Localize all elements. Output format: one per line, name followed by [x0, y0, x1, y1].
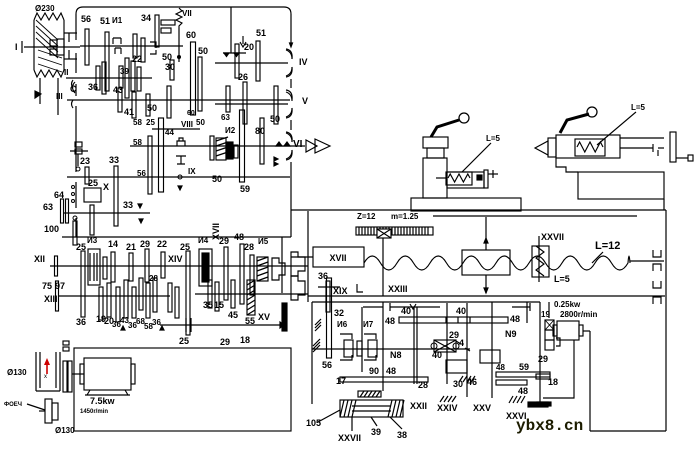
- horizontal gear bar 18: [496, 380, 527, 385]
- gear 63 on III: [226, 86, 230, 112]
- svg-text:35: 35: [203, 300, 213, 310]
- bed hooks right: [653, 250, 661, 257]
- shaft XI line: [64, 212, 150, 214]
- gear 48 tall: [240, 244, 244, 304]
- shaft stub x527: [526, 302, 528, 323]
- motor 7.5 base: [85, 390, 130, 395]
- gear 19: [99, 287, 103, 320]
- gear x162: [161, 252, 165, 278]
- svg-text:XVII: XVII: [329, 253, 346, 263]
- tailstock handle: [560, 114, 589, 133]
- rest symbol above spindle: [177, 138, 185, 146]
- end tick: [537, 402, 551, 406]
- svg-text:41: 41: [124, 107, 134, 117]
- svg-text:39: 39: [371, 427, 381, 437]
- svg-text:Ø230: Ø230: [35, 4, 55, 13]
- svg-text:XXVII: XXVII: [338, 433, 361, 443]
- svg-text:III: III: [56, 92, 63, 101]
- belt to motor left side: [39, 78, 41, 104]
- split nut XXVII: [532, 246, 549, 277]
- svg-text:48: 48: [234, 232, 244, 242]
- gear pair II a: [119, 66, 123, 88]
- hatch mark left lower: [313, 339, 320, 346]
- gear on IV: [235, 44, 239, 78]
- saddle cap: [423, 137, 448, 148]
- gear x105: [103, 257, 107, 279]
- gear 36 on II: [96, 66, 100, 90]
- motor 0.25 flanges: [553, 325, 557, 336]
- bevel riser: [548, 302, 550, 318]
- svg-text:48: 48: [386, 366, 396, 376]
- gear 39: [102, 62, 106, 94]
- red arrow: [46, 362, 48, 374]
- svg-text:L=5: L=5: [554, 274, 570, 284]
- jaw clutch a: [272, 258, 285, 280]
- svg-text:L=5: L=5: [486, 134, 501, 143]
- svg-text:50: 50: [198, 46, 208, 56]
- gearbox XVII box: [313, 247, 364, 267]
- svg-text:46: 46: [467, 377, 477, 387]
- gear 51: [105, 32, 109, 91]
- headstock casing border bottom: [62, 236, 291, 238]
- gear on II right: [170, 60, 174, 80]
- tailstock barrel: [556, 135, 620, 158]
- svg-text:51: 51: [256, 28, 266, 38]
- bed right wall: [665, 210, 667, 431]
- svg-text:X: X: [103, 182, 109, 192]
- motor drop line: [543, 340, 574, 398]
- gear 63: [66, 199, 69, 223]
- gear 26: [243, 82, 247, 124]
- shaft XX vertical: [382, 302, 384, 391]
- saddle dot: [477, 175, 482, 180]
- clutch box 25: [84, 188, 101, 202]
- svg-text:0.25kw: 0.25kw: [554, 300, 581, 309]
- gear pair on I: [133, 34, 137, 58]
- headstock casing border left: [75, 14, 77, 40]
- headstock casing border top: [76, 7, 291, 14]
- spindle bearing marks: [276, 142, 282, 146]
- shaft XII line: [50, 265, 308, 267]
- tailstock quill: [620, 137, 664, 139]
- shaft IX line: [67, 176, 290, 178]
- shaft XV line: [195, 293, 308, 295]
- apron top line: [312, 301, 540, 303]
- gear 36 c: [153, 278, 157, 312]
- gear 29 XII: [145, 249, 149, 282]
- gear 14: [111, 252, 115, 282]
- gear 36 b: [132, 287, 136, 318]
- gear 41: [132, 92, 136, 118]
- clutch M3 box: [88, 249, 100, 285]
- shaft II line: [66, 77, 152, 79]
- svg-text:22: 22: [132, 54, 142, 64]
- shaft XVI line: [160, 324, 282, 326]
- svg-text:80: 80: [255, 126, 265, 136]
- svg-text:40: 40: [432, 350, 442, 360]
- svg-text:N8: N8: [390, 350, 402, 360]
- svg-text:ФОЕЧ: ФОЕЧ: [4, 402, 22, 408]
- leadscrew wave: [364, 256, 630, 270]
- gear 15: [215, 282, 219, 311]
- svg-text:XV: XV: [258, 312, 270, 322]
- svg-text:Ø130: Ø130: [7, 368, 27, 377]
- tailstock spring box: [575, 139, 605, 156]
- shaft mid vertical: [466, 303, 468, 397]
- svg-text:60: 60: [186, 30, 196, 40]
- svg-text:48: 48: [496, 363, 505, 372]
- riser to cluster: [281, 237, 283, 293]
- saddle arm: [447, 172, 484, 188]
- shaft VI spindle line: [130, 145, 305, 147]
- belt to motor right side: [57, 78, 59, 115]
- svg-text:26: 26: [238, 72, 248, 82]
- gear 28: [250, 255, 254, 295]
- bearing hooks shaft IV: [286, 49, 292, 59]
- fork line: [230, 7, 232, 53]
- brake shaft stub: [70, 150, 88, 152]
- svg-text:XVII: XVII: [211, 223, 221, 240]
- svg-text:IX: IX: [188, 167, 196, 176]
- svg-text:VIII: VIII: [181, 120, 193, 129]
- gear 56 spindle: [159, 118, 164, 192]
- bed line lower: [433, 215, 637, 217]
- svg-text:38: 38: [397, 430, 407, 440]
- pivot marks: [121, 326, 125, 330]
- svg-text:59: 59: [519, 362, 529, 372]
- svg-text:XII: XII: [34, 254, 45, 264]
- gear 33 tall: [114, 166, 118, 226]
- svg-text:IV: IV: [299, 57, 308, 67]
- shaft XVIII line: [312, 348, 470, 350]
- svg-text:Z=12: Z=12: [357, 212, 376, 221]
- svg-text:58: 58: [133, 138, 142, 147]
- driven pulley inner lines: [39, 352, 41, 388]
- svg-text:97: 97: [55, 281, 65, 291]
- svg-text:59: 59: [240, 184, 250, 194]
- svg-text:32: 32: [334, 308, 344, 318]
- rack shaft vertical: [382, 238, 384, 296]
- svg-text:22: 22: [157, 239, 167, 249]
- saddle bed block: [411, 198, 521, 211]
- svg-text:58: 58: [133, 118, 142, 127]
- gear 58 spindle: [148, 136, 152, 194]
- bottom right box left: [589, 331, 591, 431]
- bottom right box bottom: [590, 430, 666, 432]
- svg-text:И5: И5: [258, 237, 269, 246]
- gear 50 spindle: [210, 136, 214, 160]
- brace IV: [286, 50, 292, 76]
- svg-text:34: 34: [141, 13, 151, 23]
- bracket C: [73, 82, 76, 93]
- svg-text:x: x: [44, 374, 47, 380]
- brace VI: [286, 133, 292, 159]
- clutch hook: [150, 42, 156, 54]
- saddle handle: [431, 120, 459, 137]
- svg-text:7.5kw: 7.5kw: [90, 396, 116, 406]
- shaft XXVI vertical: [491, 302, 493, 398]
- arrow above nut: [485, 217, 487, 250]
- hatch mark left: [315, 319, 321, 325]
- svg-text:И3: И3: [87, 236, 98, 245]
- svg-text:I: I: [15, 42, 18, 52]
- svg-text:m=1.25: m=1.25: [391, 212, 419, 221]
- gear x56 XIII: [56, 281, 59, 311]
- bearing hooks shaft V: [286, 90, 292, 100]
- svg-text:25: 25: [146, 118, 155, 127]
- svg-text:56: 56: [81, 14, 91, 24]
- clutch sleeve 34: [161, 20, 175, 25]
- bracket end: [357, 284, 363, 292]
- svg-text:45: 45: [228, 310, 238, 320]
- svg-text:29: 29: [220, 337, 230, 347]
- tailstock base: [578, 172, 664, 199]
- bevel stack: [545, 320, 554, 330]
- mark a: [139, 219, 143, 223]
- apron left border: [311, 302, 313, 404]
- pulley small marks: [63, 341, 69, 345]
- gear 64: [61, 199, 64, 223]
- svg-text:90: 90: [369, 366, 379, 376]
- svg-text:100: 100: [44, 224, 59, 234]
- gear 80: [260, 118, 264, 164]
- hub on shaft I: [50, 40, 57, 46]
- hooks motor: [556, 338, 560, 346]
- svg-text:50: 50: [212, 174, 222, 184]
- svg-text:36: 36: [88, 82, 98, 92]
- svg-text:50: 50: [270, 114, 280, 124]
- dot VII: [177, 55, 181, 59]
- gear 68: [139, 278, 143, 310]
- svg-text:25: 25: [88, 178, 98, 188]
- svg-text:XXII: XXII: [410, 401, 427, 411]
- svg-text:23: 23: [80, 156, 90, 166]
- gear 58 c: [146, 283, 150, 318]
- svg-text:43: 43: [113, 85, 123, 95]
- svg-text:1450r/min: 1450r/min: [80, 409, 108, 415]
- bearing hooks shaft VI: [286, 132, 292, 142]
- gear 34: [155, 15, 159, 47]
- gear ticks XVI: [185, 318, 187, 332]
- svg-text:17: 17: [336, 376, 346, 386]
- motor shaft link: [72, 373, 84, 375]
- svg-text:N9: N9: [505, 329, 517, 339]
- svg-text:XIX: XIX: [333, 286, 348, 296]
- gear 25 left tall: [81, 251, 85, 317]
- gear 18 plate: [536, 374, 550, 379]
- gear x74: [73, 221, 77, 245]
- svg-text:XIV: XIV: [168, 254, 183, 264]
- motor 7.5 caps: [80, 364, 84, 384]
- gear 43: [118, 88, 122, 112]
- hatch under 48: [509, 396, 513, 403]
- gear 21: [129, 253, 133, 281]
- gear III x167: [167, 86, 171, 118]
- leadscrew end line: [630, 260, 664, 262]
- pulley 130 right wall: [59, 352, 61, 391]
- svg-text:29: 29: [538, 354, 548, 364]
- svg-text:36: 36: [152, 318, 161, 327]
- saddle spring box: [446, 172, 472, 185]
- svg-text:63: 63: [43, 202, 53, 212]
- svg-text:60: 60: [187, 110, 195, 117]
- svg-text:33: 33: [123, 200, 133, 210]
- svg-text:ybx8.cn: ybx8.cn: [516, 417, 583, 435]
- svg-text:36: 36: [76, 317, 86, 327]
- svg-text:И4: И4: [198, 236, 209, 245]
- pulley P1 (Ø230): [34, 20, 64, 70]
- saddle leader: [462, 143, 491, 172]
- svg-text:XXVII: XXVII: [541, 232, 564, 242]
- svg-text:XXIII: XXIII: [388, 284, 408, 294]
- hatched gear XV: [247, 280, 255, 315]
- jaw clutch c: [291, 276, 305, 300]
- gear 56: [85, 29, 89, 65]
- horizontal gear bar 17: [340, 377, 428, 382]
- feed rod line XXIII: [308, 295, 665, 297]
- shaft I line: [80, 45, 183, 47]
- bearing marks below VI: [274, 157, 278, 161]
- tailstock body step: [556, 158, 578, 172]
- svg-text:V: V: [302, 96, 308, 106]
- svg-text:33: 33: [109, 155, 119, 165]
- svg-text:18: 18: [240, 335, 250, 345]
- svg-text:28: 28: [418, 380, 428, 390]
- tailstock base to bed: [663, 199, 665, 210]
- shaft V line: [215, 103, 288, 105]
- svg-text:15: 15: [214, 300, 224, 310]
- pulley bottom: [36, 390, 60, 392]
- svg-text:14: 14: [108, 239, 118, 249]
- gear 29 right: [224, 247, 228, 300]
- svg-text:VII: VII: [182, 9, 192, 18]
- tailstock handwheel: [670, 132, 676, 162]
- arrow XVI: [280, 322, 284, 328]
- hatch under a: [459, 376, 463, 382]
- svg-text:VI: VI: [293, 139, 303, 150]
- rest symbol below spindle: [176, 156, 186, 164]
- svg-text:И6: И6: [337, 320, 348, 329]
- bearing hook shaft III left: [72, 100, 74, 108]
- svg-text:И2: И2: [225, 126, 236, 135]
- motor 0.25 body: [557, 321, 579, 340]
- svg-text:105: 105: [306, 418, 321, 428]
- shaft IV line: [215, 62, 288, 64]
- brace V: [286, 92, 292, 117]
- svg-text:2800r/min: 2800r/min: [560, 310, 597, 319]
- gear small x56: [55, 256, 58, 276]
- clutch M4 box: [199, 249, 212, 286]
- saddle column: [423, 158, 447, 198]
- bed line upper: [291, 209, 666, 211]
- bearing hook shaft II left: [72, 80, 74, 88]
- svg-text:28: 28: [244, 242, 254, 252]
- arrow below nut: [485, 275, 487, 293]
- pulley 130 left wall: [35, 352, 37, 391]
- svg-text:25: 25: [179, 336, 189, 346]
- shaft I: [24, 46, 80, 48]
- svg-text:29: 29: [140, 239, 150, 249]
- shaft XXIV vertical: [413, 307, 415, 384]
- svg-text:64: 64: [54, 190, 64, 200]
- svg-text:40: 40: [456, 306, 466, 316]
- wire belt-edge: [64, 32, 77, 34]
- svg-text:Ø130: Ø130: [55, 426, 75, 435]
- gear 22: [131, 61, 135, 91]
- apron slide hatched: [358, 391, 381, 397]
- svg-text:48: 48: [385, 316, 395, 326]
- gear 35: [208, 280, 212, 308]
- svg-text:56: 56: [322, 360, 332, 370]
- svg-text:И1: И1: [112, 16, 123, 25]
- svg-text:XXV: XXV: [473, 403, 491, 413]
- half-nut box: [462, 250, 510, 275]
- svg-text:50: 50: [147, 103, 157, 113]
- dots X: [72, 186, 75, 189]
- driven pulley stack: [63, 361, 67, 392]
- jaw clutch b: [291, 252, 305, 276]
- gear 50 III: [146, 94, 150, 116]
- gear 20: [107, 283, 111, 317]
- shaft XXVII vertical right: [539, 302, 541, 402]
- svg-text:30: 30: [453, 379, 463, 389]
- svg-text:И7: И7: [363, 320, 374, 329]
- gear 50 V: [274, 86, 278, 124]
- gear 45: [231, 280, 235, 308]
- gear small mid: [357, 341, 362, 356]
- svg-text:25: 25: [180, 242, 190, 252]
- svg-text:XXIV: XXIV: [437, 403, 458, 413]
- bearing wall: [68, 33, 70, 42]
- gear 25 right tall: [186, 251, 190, 335]
- gear x283: [282, 303, 287, 331]
- apron box: [340, 400, 403, 417]
- stepped pulley: [45, 399, 52, 423]
- gear 23: [85, 167, 89, 184]
- gear 51 IV: [256, 41, 260, 81]
- gear 43 b: [124, 280, 128, 318]
- tailstock leader: [597, 112, 636, 145]
- gear right of dark: [234, 145, 238, 158]
- reverse bracket right: [512, 306, 530, 308]
- reverse bracket left: [390, 306, 440, 308]
- link IX to XVII box: [291, 256, 313, 258]
- shaft x362 vertical: [361, 307, 363, 372]
- saddle right bar: [484, 170, 488, 188]
- gear x177: [175, 287, 179, 318]
- gear 59 spindle: [240, 110, 245, 182]
- shaft XIII line: [58, 295, 170, 297]
- motor box border: [74, 348, 291, 431]
- svg-text:50: 50: [196, 118, 205, 127]
- svg-text:25: 25: [76, 242, 86, 252]
- saddle neck: [427, 148, 444, 158]
- shaft XXVII line: [538, 236, 540, 282]
- horizontal gear bar 59: [496, 372, 550, 377]
- motor 7.5 body: [84, 358, 131, 390]
- shaft XXV vertical: [446, 303, 448, 384]
- gear dark: [226, 142, 233, 159]
- svg-text:44: 44: [165, 128, 174, 137]
- leader L12: [592, 252, 603, 263]
- gear 50 upper: [198, 57, 202, 111]
- svg-text:C: C: [70, 84, 77, 94]
- headstock casing border right: [290, 14, 292, 46]
- spindle nose cone: [306, 140, 317, 152]
- small box b: [480, 350, 500, 363]
- gear 60: [191, 42, 196, 115]
- gear x170: [168, 283, 172, 312]
